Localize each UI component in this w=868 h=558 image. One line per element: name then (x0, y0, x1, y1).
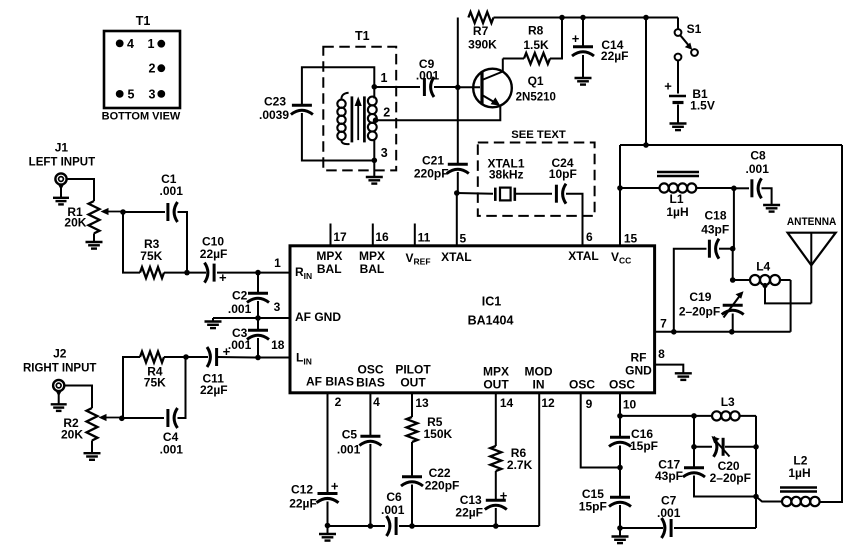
wire R5 to C22 (411, 442, 413, 476)
svg-text:MOD: MOD (525, 365, 553, 379)
transformer T1 label (355, 29, 370, 43)
wire wiper to C1 (123, 211, 165, 213)
capacitor C17 label (655, 457, 683, 483)
svg-text:LEFT INPUT: LEFT INPUT (29, 157, 95, 169)
capacitor C16 label (630, 427, 658, 453)
node base junction (455, 85, 461, 91)
ground below B1 (670, 124, 687, 131)
svg-text:SEE TEXT: SEE TEXT (511, 129, 566, 141)
pin 8 number (658, 347, 665, 361)
pin number 1 (274, 256, 281, 270)
T1 core bars (352, 96, 365, 142)
capacitor C20 (712, 436, 730, 457)
svg-text:IC1: IC1 (482, 295, 502, 309)
transistor Q1 label (516, 74, 556, 104)
capacitor C15 label (579, 487, 607, 514)
resistor R3 (140, 237, 164, 278)
wire pin8 to ground (655, 365, 684, 373)
svg-text:BAL: BAL (360, 262, 385, 276)
transformer T1 bottom-view box (104, 31, 180, 108)
svg-text:150K: 150K (424, 427, 453, 441)
wire C18 left lead (674, 249, 707, 332)
ground at pin8 (675, 373, 692, 380)
crystal XTAL1 (495, 188, 515, 201)
svg-text:XTAL: XTAL (568, 249, 598, 263)
IC1 label R_IN (295, 265, 312, 281)
svg-text:16: 16 (375, 230, 389, 244)
wire pin4 down (369, 393, 371, 436)
svg-text:1: 1 (274, 256, 281, 270)
switch S1 (675, 22, 702, 60)
transistor Q1 circle (473, 69, 512, 108)
capacitor C9 (424, 77, 434, 97)
inductor L2 (756, 497, 820, 507)
svg-text:C2: C2 (232, 289, 248, 303)
node L1/pin15 junction (617, 185, 623, 191)
capacitor C23 (291, 105, 313, 114)
pin 10 number (623, 398, 637, 412)
wire battery rail down (645, 18, 647, 146)
node L4 left junction (730, 277, 736, 283)
inductor L1 core (657, 172, 699, 176)
node L3 left junction (691, 413, 697, 419)
svg-text:43pF: 43pF (701, 223, 729, 237)
wire junction to C10 (187, 272, 206, 274)
svg-text:22µF: 22µF (455, 506, 483, 520)
capacitor C7 (662, 518, 672, 538)
node R1 wiper junction (120, 209, 126, 215)
wire Vplus corner to L1 (620, 145, 646, 188)
wire pin10 down (619, 393, 621, 416)
svg-text:3: 3 (381, 146, 388, 160)
capacitor C8 (752, 178, 762, 198)
see text label (511, 129, 566, 141)
svg-text:L3: L3 (721, 395, 735, 409)
inductor L3 (694, 411, 756, 420)
ground below C14 (575, 78, 592, 85)
node L2 feed junction (753, 494, 759, 500)
inductor L2 core (780, 488, 817, 492)
connector J2 jack (51, 380, 67, 411)
svg-text:L4: L4 (756, 260, 770, 274)
pin 16 stub (373, 224, 389, 246)
IC1 label XTAL pin6 (568, 249, 598, 263)
wire C9 to base node (434, 86, 458, 88)
svg-text:13: 13 (415, 396, 429, 410)
wire XTAL1 to C24 (515, 193, 552, 195)
svg-text:+: + (572, 31, 580, 46)
svg-text:GND: GND (625, 364, 652, 378)
connector J1 label (29, 141, 95, 169)
wire C18 right lead (719, 248, 733, 250)
svg-text:.001: .001 (160, 184, 184, 198)
node pin10 junction (617, 413, 623, 419)
svg-text:20K: 20K (61, 428, 83, 442)
transformer T1 pinout label (136, 14, 151, 28)
svg-text:OUT: OUT (400, 376, 426, 390)
capacitor C8 label (746, 148, 770, 176)
pin 13 number (415, 396, 429, 410)
crystal XTAL1 label (487, 157, 524, 182)
svg-text:390K: 390K (468, 37, 497, 51)
ground below C8 (763, 205, 780, 212)
svg-text:1: 1 (381, 71, 388, 85)
wire C23 loop bottom (302, 113, 374, 161)
svg-text:J1: J1 (55, 141, 69, 155)
svg-text:+: + (331, 479, 339, 494)
svg-text:OSC: OSC (609, 378, 635, 392)
wire C24 to pin6 (566, 194, 583, 246)
wire L4 tap to antenna (765, 286, 811, 304)
inductor L4 label (756, 260, 770, 274)
wire L1 node to C8 (734, 187, 749, 189)
svg-text:220pF: 220pF (425, 478, 460, 492)
IC1 label AF BIAS (306, 375, 354, 389)
R1 wiper arrow (101, 208, 124, 215)
antenna label (787, 216, 837, 228)
svg-text:MPX: MPX (483, 365, 509, 379)
capacitor C10 label (200, 234, 228, 261)
capacitor C1 (168, 202, 178, 222)
svg-text:38kHz: 38kHz (489, 168, 524, 182)
node pin9 junction (617, 465, 623, 471)
svg-text:15pF: 15pF (579, 500, 607, 514)
wire L3 node down to C20 node (693, 416, 695, 447)
svg-text:IN: IN (533, 378, 545, 392)
R2 wiper arrow (99, 414, 124, 421)
pin 12 number (541, 396, 555, 410)
IC1 label MPX BAL pin16 (359, 249, 385, 276)
T1 bottom view caption (102, 111, 181, 123)
svg-text:14: 14 (500, 396, 514, 410)
svg-text:R8: R8 (528, 24, 544, 38)
svg-text:12: 12 (541, 396, 555, 410)
wire pin9 node to C15 (619, 468, 621, 497)
wire pin1 node down to C2 (257, 273, 259, 292)
capacitor C10 (205, 263, 228, 285)
IC1 name (468, 295, 514, 328)
pin 4 number (373, 395, 380, 409)
capacitor C14 (572, 31, 594, 56)
battery B1 (664, 79, 715, 113)
svg-text:4: 4 (127, 37, 134, 51)
svg-text:+: + (500, 488, 508, 503)
node battery rail junction (643, 15, 649, 21)
capacitor C22 (401, 477, 423, 486)
svg-text:1: 1 (148, 37, 155, 51)
svg-text:220pF: 220pF (414, 167, 449, 181)
wire pin7 rail (655, 331, 791, 333)
wire C12 to rail (327, 502, 329, 527)
inductor L1 (620, 183, 734, 192)
wire pin14 down (495, 393, 497, 447)
svg-text:C23: C23 (264, 95, 286, 109)
svg-text:11: 11 (418, 231, 431, 245)
svg-text:2: 2 (149, 62, 156, 76)
T1 core arrow (355, 97, 362, 141)
svg-text:20K: 20K (64, 215, 86, 229)
svg-text:.001: .001 (337, 443, 361, 457)
svg-text:10: 10 (623, 398, 637, 412)
wire C19 to pin7 rail (732, 314, 734, 332)
svg-text:MPX: MPX (359, 249, 385, 263)
capacitor C9 label (416, 57, 440, 82)
capacitor C18 (709, 239, 719, 259)
node pin1 junction (255, 270, 261, 276)
node T1 pin3 (372, 146, 388, 163)
svg-text:22µF: 22µF (289, 497, 317, 511)
wire rail corner to S1 (677, 18, 679, 30)
svg-text:XTAL: XTAL (441, 250, 471, 264)
wire bottom row C7 (620, 527, 663, 529)
resistor R4 (140, 352, 166, 390)
transformer T1 dashed box (323, 47, 396, 171)
capacitor C16 (609, 437, 631, 446)
capacitor C15 (609, 497, 631, 506)
capacitor C20 label (710, 459, 751, 485)
wire C15 to ground node (619, 505, 621, 528)
node pin3 junction (255, 315, 261, 321)
svg-text:.001: .001 (160, 442, 184, 456)
svg-text:S1: S1 (687, 22, 702, 36)
svg-text:C6: C6 (386, 490, 402, 504)
svg-text:5: 5 (128, 87, 135, 101)
wire C8 to ground (762, 188, 772, 204)
wire right rail (755, 416, 757, 528)
wire pin3 into IC (258, 317, 291, 319)
wire pin9 route (581, 393, 620, 468)
svg-text:75K: 75K (144, 376, 166, 390)
svg-text:2–20pF: 2–20pF (679, 305, 720, 319)
connector J2 label (23, 347, 96, 375)
node pin7/C19 junction (729, 329, 735, 335)
ground below R1 (86, 233, 103, 248)
pin 15 number (624, 232, 638, 246)
pin 14 number (500, 396, 514, 410)
svg-text:1µH: 1µH (666, 205, 688, 219)
see text dashed box (478, 143, 595, 216)
T1 pin 4 dot (116, 37, 134, 51)
svg-text:2: 2 (335, 395, 342, 409)
svg-text:T1: T1 (355, 29, 370, 43)
node C15 ground junction (617, 525, 623, 531)
wire Q1 collector to R8 (503, 58, 524, 60)
capacitor C6 label (381, 490, 405, 517)
wire pin5 down to IC (456, 193, 458, 246)
T1 pin2 tap dot (373, 106, 390, 123)
wire C21 to xtal node (457, 172, 459, 193)
wire L1 node down to C18 node (733, 188, 735, 248)
wire bottom rail left (328, 525, 386, 527)
capacitor C1 label (160, 172, 184, 198)
svg-text:4: 4 (373, 395, 380, 409)
svg-text:2N5210: 2N5210 (516, 92, 556, 104)
pin number 18 (271, 338, 285, 352)
T1 secondary winding (368, 87, 377, 161)
wire C20 row (694, 446, 712, 448)
capacitor C13 label (455, 493, 483, 520)
wire pin2 down (327, 393, 329, 494)
capacitor C11 label (200, 371, 228, 397)
node rail C12 junction (325, 523, 331, 529)
capacitor C23 label (259, 95, 289, 122)
wire C13 to rail (495, 508, 497, 526)
wire pin3 to ground (213, 317, 258, 319)
transistor Q1 collector (482, 59, 503, 81)
ground below T1 pin3 (366, 160, 383, 183)
wire C22 to rail (411, 485, 413, 527)
svg-text:10pF: 10pF (549, 167, 577, 181)
wire C18 node down to L4 node (732, 249, 734, 280)
capacitor C24 label (549, 156, 577, 181)
svg-text:8: 8 (658, 347, 665, 361)
svg-text:9: 9 (586, 397, 593, 411)
wire C14 to ground (582, 55, 584, 78)
node R3/C1 junction (184, 270, 190, 276)
node rail pin14 junction (493, 523, 499, 529)
svg-text:2.7K: 2.7K (507, 458, 533, 472)
wire R4 to junction (164, 356, 186, 358)
node rail pin4 junction (368, 523, 374, 529)
T1 pin 2 dot (149, 62, 166, 76)
svg-text:Q1: Q1 (528, 74, 544, 88)
wire R3 to junction (164, 272, 187, 274)
capacitor C3 (247, 330, 269, 339)
wire wiper junction up to R4 (123, 357, 140, 418)
wire L4 right lead down (790, 280, 792, 332)
resistor R6 (490, 446, 532, 472)
svg-text:75K: 75K (140, 249, 162, 263)
wire C17 to bottom row (694, 476, 756, 497)
svg-text:.001: .001 (416, 68, 440, 82)
capacitor C19 label (679, 290, 720, 319)
wire J2 to R2 top (65, 386, 93, 409)
pin 2 number (335, 395, 342, 409)
capacitor C12 label (289, 483, 317, 511)
svg-text:3: 3 (149, 87, 156, 101)
antenna symbol (788, 233, 836, 304)
IC1 label OSC pin10 (609, 378, 635, 392)
wire S1 to battery (677, 60, 679, 93)
capacitor C21 label (414, 154, 449, 181)
svg-text:2: 2 (383, 106, 390, 120)
capacitor C2 (247, 293, 269, 302)
svg-text:OSC: OSC (357, 363, 383, 377)
node L4 tap dot (762, 283, 767, 288)
node T1 pin1 (372, 84, 378, 90)
svg-text:.001: .001 (228, 302, 252, 316)
capacitor C5 label (337, 428, 361, 457)
wire C3 to pin18 node (257, 338, 259, 358)
IC1 label L_IN (296, 351, 312, 367)
capacitor C18 label (701, 209, 729, 237)
capacitor C4 label (160, 430, 184, 456)
capacitor C7 label (657, 494, 681, 521)
wire C10 to pin1 node (217, 272, 258, 274)
svg-text:7: 7 (660, 317, 667, 331)
svg-text:J2: J2 (53, 347, 67, 361)
transistor Q1 emitter (482, 95, 500, 106)
resistor R5 (407, 415, 453, 442)
wire C20 to right rail (725, 446, 756, 448)
inductor L3 label (721, 395, 735, 409)
svg-text:22µF: 22µF (200, 247, 228, 261)
potentiometer R2 (61, 408, 98, 442)
capacitor C5 (359, 436, 381, 445)
wire junction to C11 (186, 356, 208, 358)
capacitor C22 label (425, 466, 460, 492)
T1 primary winding (337, 93, 349, 144)
IC1 label MOD IN (525, 365, 553, 392)
wire C5 to rail (369, 444, 371, 526)
svg-text:+: + (664, 79, 672, 94)
transistor Q1 base bar (480, 72, 483, 104)
wire C20 node down to C17 (693, 447, 695, 467)
svg-text:C5: C5 (342, 428, 358, 442)
wire C16 to pin9 node (619, 446, 621, 468)
pin 6 number (586, 230, 593, 244)
svg-text:15: 15 (624, 232, 638, 246)
node R2 wiper junction (119, 416, 125, 422)
svg-text:L1: L1 (669, 192, 683, 206)
svg-text:OSC: OSC (569, 378, 595, 392)
svg-text:1µH: 1µH (788, 466, 810, 480)
svg-text:AF GND: AF GND (295, 310, 341, 324)
pin 5 number (459, 232, 466, 246)
svg-text:C21: C21 (422, 154, 444, 168)
node R4/C4/C11 junction (183, 354, 189, 360)
IC1 label OSC BIAS (356, 363, 385, 390)
wire Vplus to antenna loop (646, 144, 842, 146)
node L1/C8 junction (731, 186, 737, 192)
svg-text:AF BIAS: AF BIAS (306, 375, 354, 389)
potentiometer R1 (64, 201, 99, 233)
svg-text:.001: .001 (657, 506, 681, 520)
wire top rail (494, 17, 679, 19)
wire J1 to R1 top (67, 179, 94, 201)
inductor L4 (733, 275, 791, 285)
wire C4 up to R4 node (178, 357, 186, 418)
svg-text:OUT: OUT (483, 378, 509, 392)
wire wiper junction down to R3 (123, 212, 140, 273)
svg-text:43pF: 43pF (655, 469, 683, 483)
IC1 label MPX BAL pin17 (316, 249, 342, 276)
resistor R7 (468, 12, 497, 51)
capacitor C4 (168, 408, 178, 428)
wire vertical rail pin5 (457, 18, 459, 164)
IC1 label AF GND (295, 310, 341, 324)
IC1 label OSC pin9 (569, 378, 595, 392)
capacitor C24 (556, 184, 566, 204)
ground at AF GND (205, 318, 222, 328)
svg-text:2–20pF: 2–20pF (710, 471, 751, 485)
capacitor C19 (722, 291, 744, 317)
node Vplus corner junction (643, 142, 649, 148)
capacitor C21 (447, 164, 469, 173)
node C14 rail junction (580, 15, 586, 21)
capacitor C13 (485, 488, 508, 510)
svg-text:.001: .001 (381, 503, 405, 517)
capacitor C14 label (601, 38, 629, 63)
ground below R2 (84, 441, 101, 460)
svg-text:.0039: .0039 (259, 108, 289, 122)
node C18 right junction (730, 246, 736, 252)
wire pin10 node to L3 (620, 415, 694, 417)
T1 pin 5 dot (116, 87, 135, 101)
wire pin15 down to IC (619, 188, 621, 246)
resistor R8 (523, 24, 550, 65)
wire T1 pin1 to C9 (374, 86, 420, 88)
